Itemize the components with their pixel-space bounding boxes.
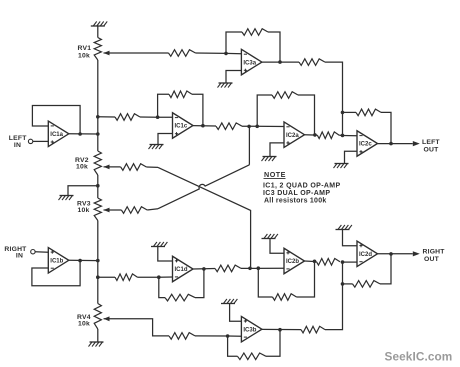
svg-text:IC2d: IC2d: [359, 252, 372, 258]
svg-text:IC3a: IC3a: [243, 60, 256, 66]
svg-text:IC2c: IC2c: [359, 142, 372, 148]
svg-text:RV1: RV1: [78, 45, 92, 52]
svg-text:LEFT: LEFT: [422, 139, 440, 146]
svg-text:10k: 10k: [78, 321, 90, 328]
svg-text:SeekIC.com: SeekIC.com: [385, 350, 453, 364]
svg-text:IN: IN: [16, 253, 23, 260]
svg-text:IC1d: IC1d: [175, 267, 188, 273]
svg-text:NOTE: NOTE: [264, 170, 286, 179]
svg-text:IC1c: IC1c: [175, 124, 188, 130]
svg-text:IC2b: IC2b: [286, 259, 299, 265]
svg-text:IC1, 2 QUAD OP-AMP: IC1, 2 QUAD OP-AMP: [263, 183, 340, 190]
svg-text:OUT: OUT: [424, 256, 440, 263]
svg-text:10k: 10k: [78, 52, 90, 59]
svg-text:IC2a: IC2a: [286, 133, 299, 139]
svg-text:OUT: OUT: [424, 147, 440, 154]
svg-text:10k: 10k: [78, 207, 90, 214]
svg-text:All resistors 100k: All resistors 100k: [264, 198, 326, 205]
svg-text:IN: IN: [14, 142, 21, 149]
svg-text:RIGHT: RIGHT: [423, 248, 446, 255]
svg-text:10k: 10k: [76, 164, 88, 171]
svg-text:IC1b: IC1b: [50, 259, 63, 265]
svg-text:IC3 DUAL OP-AMP: IC3 DUAL OP-AMP: [263, 190, 330, 197]
svg-text:IC3b: IC3b: [243, 327, 256, 333]
svg-text:IC1a: IC1a: [50, 132, 63, 138]
